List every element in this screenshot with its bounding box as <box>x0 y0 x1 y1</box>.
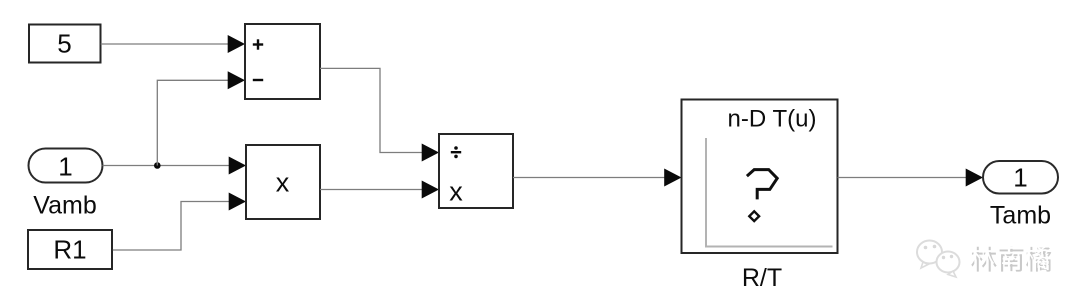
wire branch junction up to sum - input <box>157 80 229 165</box>
plus sign <box>253 43 263 45</box>
diamond dot of question mark <box>749 211 759 221</box>
constant block C1 value 5 <box>29 25 101 63</box>
arrowhead into sum + input <box>228 35 245 53</box>
wire constant 5 to sum + input <box>101 43 229 45</box>
input port Vamb oval <box>29 149 103 183</box>
svg-text:x: x <box>449 176 463 206</box>
arrowhead into Tamb port <box>966 169 983 187</box>
wire Vamb to product input 1 <box>103 165 231 167</box>
icon axes <box>705 138 707 247</box>
wire R1 to product input 2 <box>113 202 230 251</box>
watermark text shadow <box>971 247 1051 272</box>
arrowhead into divide input 2 <box>422 181 439 199</box>
svg-text:n-D T(u): n-D T(u) <box>728 106 817 133</box>
svg-text:x: x <box>276 167 290 197</box>
arrowhead into product input 1 <box>229 157 246 175</box>
sum block <box>245 24 320 99</box>
svg-text:1: 1 <box>58 152 72 182</box>
watermark wechat icon <box>917 241 960 278</box>
arrowhead into product input 2 <box>229 193 246 211</box>
svg-text:Vamb: Vamb <box>33 192 96 220</box>
svg-text:R/T: R/T <box>742 264 782 292</box>
svg-text:5: 5 <box>57 28 71 58</box>
question-mark polyline icon <box>747 170 777 200</box>
watermark text white top <box>969 244 1049 269</box>
output port Tamb oval <box>983 161 1058 194</box>
junction node on Vamb wire <box>154 162 161 169</box>
svg-text:Tamb: Tamb <box>990 202 1051 230</box>
svg-text:R1: R1 <box>53 234 86 264</box>
product block <box>246 145 320 219</box>
wire product output to divide input 2 <box>320 189 423 191</box>
wire lookup table output to Tamb <box>838 177 968 179</box>
arrowhead into sum - input <box>228 71 245 89</box>
divide sign <box>451 151 461 153</box>
minus sign <box>253 79 263 81</box>
wire sum output to divide input 1 <box>320 68 423 152</box>
arrowhead into divide input 1 <box>422 144 439 162</box>
divide block <box>439 134 513 208</box>
wire divide output to lookup table <box>513 177 666 179</box>
svg-text:1: 1 <box>1013 163 1027 193</box>
arrowhead into lookup table input <box>664 169 681 187</box>
n-D lookup table block <box>682 100 838 254</box>
constant block R1 <box>28 230 112 269</box>
